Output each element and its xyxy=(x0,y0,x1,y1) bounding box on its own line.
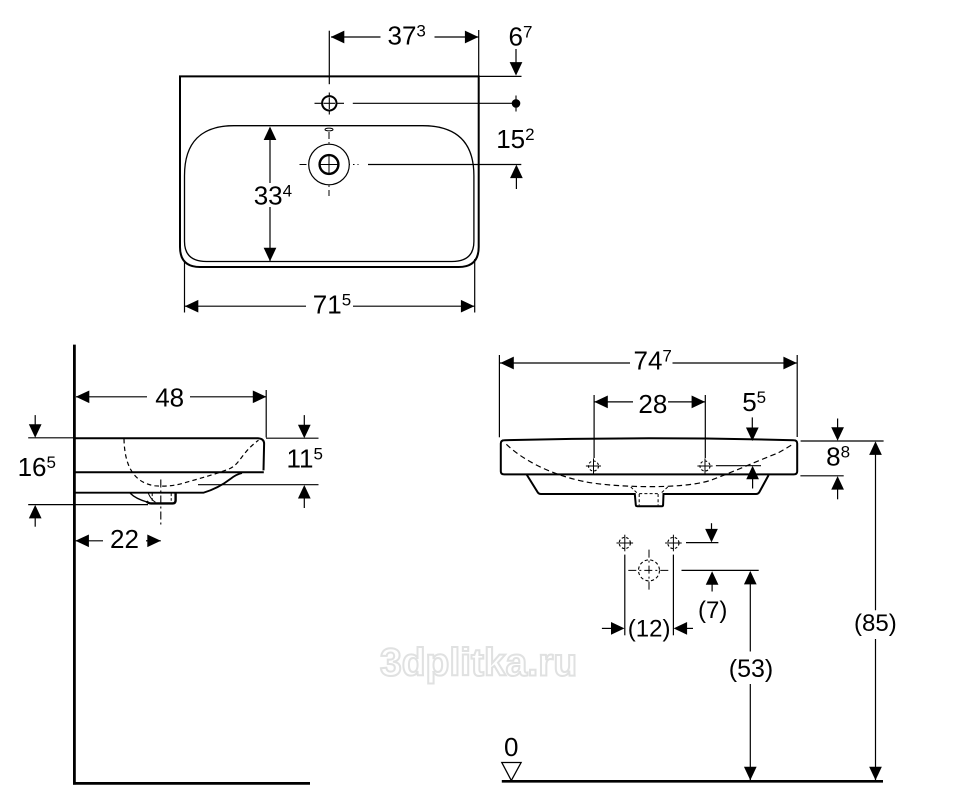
hidden bowl curve (dashed, front view) xyxy=(506,444,791,486)
faucet hole (top view) xyxy=(322,96,336,110)
dim (7) up arrow xyxy=(706,571,719,585)
dim 15-2 arrow up xyxy=(510,165,523,179)
svg-text:(53): (53) xyxy=(729,655,773,683)
dim 37-3 dimension line xyxy=(331,36,479,38)
faucet hole centerlines xyxy=(315,102,345,104)
dim (53) vertical line xyxy=(749,572,751,652)
trap fillet arcs xyxy=(130,493,147,502)
drain centerline horizontal (dash-dot) xyxy=(300,164,359,166)
svg-text:48: 48 xyxy=(155,383,184,413)
dim 5-5 arrows xyxy=(751,417,753,429)
dim 37-3 extension lines xyxy=(328,31,330,84)
faucet hole left (front view) xyxy=(589,461,599,471)
sink top edge (side view) xyxy=(74,438,264,470)
dim 16-5 arrows xyxy=(34,415,36,425)
reference dot xyxy=(512,99,521,108)
dim 11-5 bottom reference line xyxy=(198,484,319,486)
floor line (front view) xyxy=(502,780,883,783)
drain leader line to right xyxy=(368,164,521,166)
dim 8-8 arrows xyxy=(837,419,839,430)
dim 71-5 dimension line xyxy=(185,305,306,307)
drain hole inner circle (top view) xyxy=(320,155,339,174)
sink rim (front view) xyxy=(501,438,797,474)
reference line from right faucet hole xyxy=(716,465,761,467)
floor line (side view) xyxy=(73,782,310,785)
dim (12) extension lines xyxy=(624,555,626,636)
reference line right of fixing holes xyxy=(686,542,718,544)
dim 48 extension line xyxy=(265,390,267,438)
label 37-3 xyxy=(381,21,435,51)
drain hole outer circle (top view) xyxy=(309,144,350,185)
svg-text:(85): (85) xyxy=(854,610,897,637)
hidden drain cone (dashed, front view) xyxy=(631,487,638,493)
drain trap box (side view) xyxy=(147,493,176,503)
siphon circle (dashed, front view) xyxy=(639,560,660,581)
outer body outline (top view) xyxy=(180,76,479,267)
dim 74-7 extension lines xyxy=(498,355,500,437)
dim 48 dimension line xyxy=(76,396,147,398)
overflow slot (top view) xyxy=(325,128,333,131)
faucet hole right (front view) xyxy=(700,461,710,471)
dim (85) vertical line xyxy=(875,443,877,611)
basin underside profile (side view) xyxy=(74,473,242,493)
dim 71-5 extension lines xyxy=(184,262,186,313)
datum triangle xyxy=(502,763,521,781)
dim 11-5 arrows xyxy=(303,415,305,425)
drain centerline vertical (dash-dot) xyxy=(328,132,330,196)
dim 28 extension lines xyxy=(593,395,595,458)
dim 28 dimension line xyxy=(595,401,634,403)
leader line from faucet hole to dot xyxy=(353,102,512,104)
dim 22 dimension line xyxy=(76,540,103,542)
siphon centerlines (dash-dot) xyxy=(628,569,670,571)
dim (7) down arrow xyxy=(711,523,713,531)
fixing hole left (front view) xyxy=(619,537,630,548)
drain centerline (dash-dot, side view) xyxy=(160,480,162,525)
dim 33-4 vertical line xyxy=(269,128,271,183)
dim 16-5 extension lines xyxy=(28,437,74,439)
top edge extension to the right xyxy=(479,75,522,77)
dim (12) arrows outside xyxy=(602,627,612,629)
dim 6-7 arrow down xyxy=(515,49,517,64)
dim 8-8 extension lines xyxy=(801,440,884,442)
wall line xyxy=(73,345,76,785)
svg-text:22: 22 xyxy=(110,524,139,554)
hidden bowl curve (dashed, side view) xyxy=(124,439,259,486)
fixing hole right (front view) xyxy=(668,537,679,548)
svg-text:28: 28 xyxy=(638,389,667,419)
dim 11-5 top extension xyxy=(266,437,319,439)
svg-text:0: 0 xyxy=(504,732,518,762)
apron outline (front view) xyxy=(527,475,769,507)
svg-text:3dplitka.ru: 3dplitka.ru xyxy=(380,642,577,685)
rim bottom line (side view) xyxy=(74,471,263,473)
svg-text:(7): (7) xyxy=(698,597,727,624)
inner basin rim outline (top view) xyxy=(185,126,474,262)
svg-text:(12): (12) xyxy=(628,616,671,643)
hidden drain lines (dashed, side view) xyxy=(151,494,153,503)
dim 74-7 dimension line xyxy=(500,362,630,364)
siphon reference line xyxy=(682,569,759,571)
